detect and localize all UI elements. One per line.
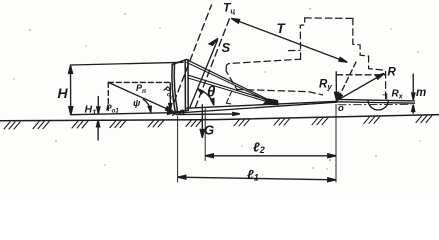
svg-text:S: S — [222, 40, 231, 55]
tractor silhouette dashed — [226, 18, 386, 99]
sprocket arc — [368, 101, 389, 110]
cylinder axis dashed left — [174, 5, 212, 102]
force parallelogram top dashed — [337, 74, 386, 76]
svg-text:m: m — [416, 87, 426, 99]
extension line left l1 — [177, 117, 179, 183]
right angle mark at Rх — [383, 94, 387, 100]
axis dashed into O — [337, 62, 356, 101]
scan speckles — [13, 8, 420, 169]
force vector Rх line — [337, 102, 415, 103]
dimension m — [412, 74, 415, 113]
svg-text:θ: θ — [207, 84, 216, 101]
cut floor line with arrow — [176, 112, 240, 115]
ground hatching — [4, 116, 432, 130]
force vector Pо2 — [169, 83, 172, 110]
bulldozer blade — [172, 59, 188, 115]
dimension H — [69, 65, 73, 115]
centre dash-dot line through O — [338, 103, 411, 106]
svg-text:ℓ2: ℓ2 — [253, 140, 265, 156]
extension line left l2 — [204, 109, 206, 161]
svg-text:ψ: ψ — [133, 98, 141, 109]
extension line right O — [335, 105, 337, 183]
line B to O upper — [187, 101, 337, 108]
pusher frame upper brace — [187, 60, 272, 102]
svg-text:Rу: Rу — [319, 79, 332, 92]
svg-text:Pп: Pп — [136, 83, 146, 95]
force vector R — [337, 73, 385, 100]
svg-text:Т: Т — [277, 21, 287, 36]
cylinder axis dashed right — [195, 19, 229, 108]
svg-text:H: H — [58, 85, 69, 101]
weight vector G — [200, 105, 204, 138]
force vector Pо1 — [71, 111, 175, 115]
svg-text:Тц: Тц — [223, 1, 235, 16]
svg-text:ℓ1: ℓ1 — [247, 167, 259, 183]
pusher frame arm — [188, 75, 272, 101]
svg-text:H1: H1 — [85, 104, 97, 117]
frame foot — [263, 99, 279, 105]
track line upper right of O — [337, 99, 415, 101]
blade top reference line — [71, 62, 184, 65]
force vector S — [190, 39, 218, 108]
dashed force rectangle — [108, 82, 170, 110]
angle arc theta — [198, 89, 214, 106]
ground line — [0, 115, 439, 121]
line B to O lower — [175, 102, 337, 113]
force line T with two arrowheads — [231, 18, 347, 62]
svg-text:в: в — [179, 107, 185, 118]
dimension l2 — [205, 154, 336, 158]
svg-text:Pо1: Pо1 — [106, 103, 119, 115]
dimension H1 — [97, 97, 100, 141]
dimension l1 — [178, 175, 336, 181]
svg-text:G: G — [204, 123, 214, 138]
angle arc psi — [143, 99, 151, 112]
track front idler dashed — [226, 92, 233, 104]
svg-text:о: о — [338, 103, 344, 114]
svg-text:R: R — [388, 67, 397, 79]
force vector Pп — [108, 82, 173, 111]
svg-text:Rх: Rх — [392, 89, 404, 101]
force vector Rу — [335, 72, 339, 101]
